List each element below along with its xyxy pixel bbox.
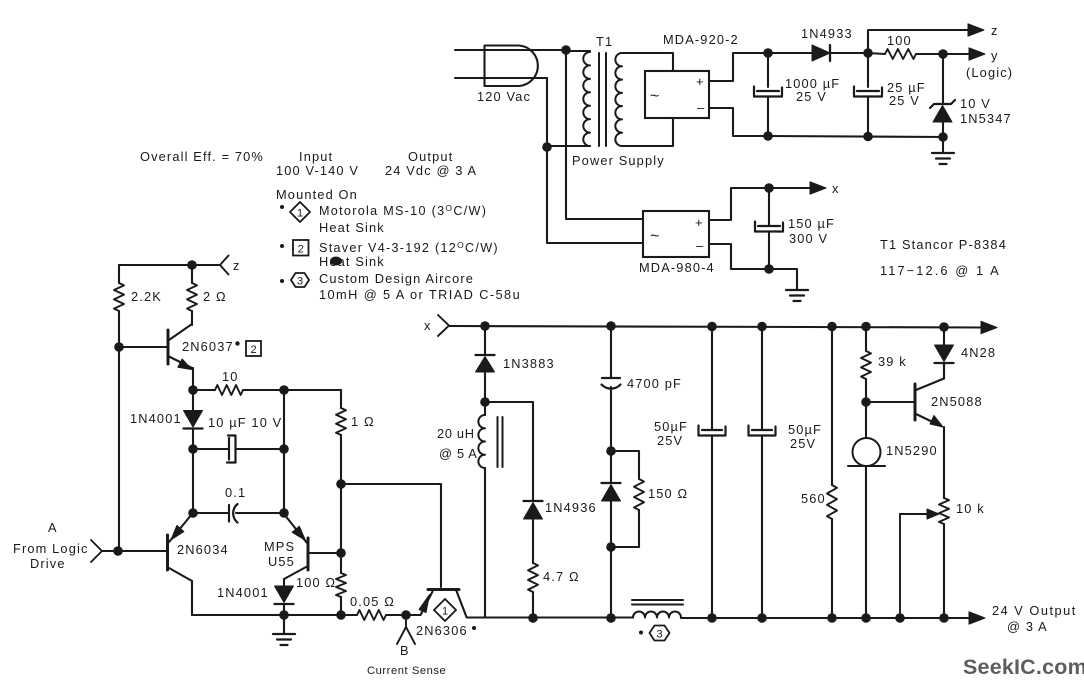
label @ 3 A (1007, 619, 1048, 634)
junction dot bottom rail 25uF (863, 132, 873, 142)
svg-text:2N6037: 2N6037 (182, 339, 234, 354)
terminal A chevron (91, 540, 102, 562)
wire diode to node y (830, 52, 868, 54)
svg-text:0.1: 0.1 (225, 485, 246, 500)
resistor 2.2K (114, 265, 124, 347)
svg-text:A: A (48, 520, 58, 535)
junction dot 100 ohm bottom (336, 610, 346, 620)
transformer T1 primary winding (583, 52, 590, 146)
wire z branch (868, 30, 968, 53)
svg-text:50µF: 50µF (788, 422, 822, 437)
svg-text:@ 5 A: @ 5 A (439, 446, 478, 461)
junction dot 1 ohm bottom (336, 479, 346, 489)
label Staver heat sink (319, 240, 499, 255)
label x top (832, 181, 840, 196)
label (Logic) (966, 65, 1013, 80)
svg-text:1N4001: 1N4001 (130, 411, 182, 426)
label @ 5 A (439, 446, 478, 461)
svg-text:MDA-980-4: MDA-980-4 (639, 260, 715, 275)
svg-text:120 Vac: 120 Vac (477, 89, 531, 104)
arrow terminal x (810, 182, 826, 194)
label 1 ohm (351, 414, 375, 429)
svg-text:+: + (696, 74, 704, 89)
wire 980 - output (709, 244, 769, 269)
svg-text:MDA-920-2: MDA-920-2 (663, 32, 739, 47)
wire secondary top to rectifier (622, 53, 673, 71)
label U55 (268, 554, 295, 569)
junction dot snubber bottom (606, 542, 616, 552)
junction dot node after 1N4933 (863, 48, 873, 58)
diamond marker 1 (290, 202, 310, 222)
wire bottom rail right part (681, 617, 969, 619)
svg-text:2 Ω: 2 Ω (203, 289, 227, 304)
label 4700 pF (627, 376, 682, 391)
svg-text:2N6306: 2N6306 (416, 623, 468, 638)
label 1N5290 (886, 443, 938, 458)
svg-text:–: – (696, 238, 704, 253)
junction dot node y (938, 49, 948, 59)
label 2.2K (131, 289, 162, 304)
label 560 (801, 491, 826, 506)
svg-text:2.2K: 2.2K (131, 289, 162, 304)
ground top section (932, 137, 954, 164)
svg-text:24 Vdc @ 3 A: 24 Vdc @ 3 A (385, 163, 477, 178)
label Custom Design Aircore (319, 271, 474, 286)
junction dot rail 560 (827, 322, 837, 332)
junction dot emitter node (188, 385, 198, 395)
diode D8 1N5290 current regulator (848, 402, 885, 618)
wire 2.2K down to A node (118, 347, 120, 551)
svg-text:2N6034: 2N6034 (177, 542, 229, 557)
label - in MDA-980-4 (696, 238, 704, 253)
svg-text:150 µF: 150 µF (788, 216, 835, 231)
label 2N6037 (182, 339, 240, 354)
diode D3 1N4001 upper (184, 390, 203, 449)
label 2N5088 (931, 394, 983, 409)
junction dot bottom rail zener (938, 132, 948, 142)
svg-text:Heat Sink: Heat Sink (319, 220, 385, 235)
svg-text:Custom Design Aircore: Custom Design Aircore (319, 271, 474, 286)
label 25 V c2 (889, 93, 920, 108)
wire x arrow (769, 187, 812, 189)
svg-text:4700 pF: 4700 pF (627, 376, 682, 391)
label 25V c8 (790, 436, 816, 451)
label 100 V-140 V (276, 163, 359, 178)
label MDA-920-2 (663, 32, 739, 47)
label 10uF 10 V (208, 415, 282, 430)
arrow terminal z (968, 24, 984, 36)
svg-text:25V: 25V (790, 436, 816, 451)
svg-text:y: y (991, 48, 999, 63)
svg-text:10mH @ 5 A or TRIAD C-58u: 10mH @ 5 A or TRIAD C-58u (319, 287, 521, 302)
wire A to base (102, 550, 167, 552)
wire top x rail (449, 326, 983, 328)
transistor Q4 2N6306 (406, 590, 467, 618)
resistor 10 ohm (193, 385, 341, 395)
svg-text:1N4933: 1N4933 (801, 26, 853, 41)
svg-text:Motorola MS-10 (3OC/W): Motorola MS-10 (3OC/W) (319, 203, 487, 218)
label 150 uF (788, 216, 835, 231)
capacitor C3 150uF 300V (755, 188, 783, 269)
wire snubber to rail (610, 547, 612, 618)
label Mounted On (276, 187, 358, 202)
transformer T1 secondary winding (615, 53, 622, 146)
wire bottom rail left part (467, 616, 633, 618)
label 1N4936 (545, 500, 597, 515)
junction dot primary bottom (542, 142, 552, 152)
arrow output (969, 612, 985, 624)
junction dot rail 4N28 (939, 322, 949, 332)
transistor Q1 2N6037 (168, 324, 193, 390)
svg-text:10 V: 10 V (960, 96, 991, 111)
label 10mH @ 5 A or TRIAD C-58u (319, 287, 521, 302)
resistor 1 ohm (336, 390, 346, 484)
diode D5 1N3883 (476, 326, 495, 402)
svg-text:SeekIC.com: SeekIC.com (963, 655, 1084, 679)
svg-text:3: 3 (656, 629, 662, 641)
hexagon marker 3 (291, 273, 309, 288)
junction dot c8 bottom (757, 613, 767, 623)
label 20 uH (437, 426, 475, 441)
label 1N4933 (801, 26, 853, 41)
junction dot rail 39k (861, 322, 871, 332)
svg-text:24 V Output: 24 V Output (992, 603, 1077, 618)
label 24 Vdc @ 3 A (385, 163, 477, 178)
resistor 100 ohm emitter (336, 553, 346, 615)
label 2N6306 (416, 623, 476, 638)
junction dot 4.7 bottom (528, 613, 538, 623)
svg-text:4.7 Ω: 4.7 Ω (543, 569, 580, 584)
junction dot rail c7 (707, 322, 717, 332)
square marker 2 (293, 240, 309, 256)
label z (991, 23, 999, 38)
svg-text:117−12.6 @ 1 A: 117−12.6 @ 1 A (880, 263, 1001, 278)
transistor Q5 2N5088 (915, 364, 944, 498)
wire y arrow (943, 53, 970, 55)
junction dot 150uF bottom (764, 264, 774, 274)
label Overall Eff. = 70% (140, 149, 264, 164)
svg-text:+: + (695, 215, 703, 230)
diode D1 1N4933 (812, 45, 830, 61)
resistor 4.7 ohm (528, 563, 538, 618)
svg-text:25 V: 25 V (889, 93, 920, 108)
label Power Supply (572, 153, 665, 168)
svg-text:Overall Eff. = 70%: Overall Eff. = 70% (140, 149, 264, 164)
svg-text:10 k: 10 k (956, 501, 985, 516)
label 1N3883 (503, 356, 555, 371)
label 2 ohm (203, 289, 227, 304)
label 4N28 (961, 345, 996, 360)
wire rectifier - output (709, 108, 768, 136)
junction dot 560 bottom (827, 613, 837, 623)
wire top rail + (768, 52, 812, 54)
junction dot 1N3883 bottom (480, 397, 490, 407)
inductor L2 output choke (633, 612, 681, 618)
wire mains to 980 bottom (547, 147, 643, 243)
capacitor C7 50uF (699, 326, 726, 618)
svg-text:x: x (424, 318, 432, 333)
label Current Sense (367, 665, 446, 677)
junction dot rail 4700pF (606, 321, 616, 331)
wire snubber top (611, 451, 639, 479)
transformer T1 core (599, 53, 606, 146)
label 117-12.6 @ 1 A (880, 263, 1001, 278)
label 25 uF (887, 80, 926, 95)
ground left section (273, 615, 295, 645)
svg-text:~: ~ (650, 88, 659, 105)
label 0.05 ohm (350, 594, 395, 609)
wire z left rail (119, 264, 220, 266)
AC plug 120 Vac (455, 46, 566, 87)
junction dot base MPSU55 (336, 548, 346, 558)
label MDA-980-4 (639, 260, 715, 275)
junction dot 0.1 right (279, 508, 289, 518)
label From Logic (13, 541, 89, 556)
svg-text:10 µF 10 V: 10 µF 10 V (208, 415, 282, 430)
terminal B chevron (397, 615, 415, 644)
label Heat Sink 1 (319, 220, 385, 235)
junction dot ground node (279, 610, 289, 620)
svg-text:1N4001: 1N4001 (217, 585, 269, 600)
wire mid left vertical (192, 449, 194, 513)
svg-text:1N3883: 1N3883 (503, 356, 555, 371)
label T1 (596, 34, 613, 49)
bullet 3 (280, 279, 284, 283)
svg-text:2N5088: 2N5088 (931, 394, 983, 409)
svg-text:100 Ω: 100 Ω (296, 575, 336, 590)
diode D9 4N28 (935, 327, 954, 379)
ink blob on Heat Sink (330, 257, 342, 266)
svg-text:3: 3 (297, 276, 303, 288)
junction dot 10uF left (188, 444, 198, 454)
svg-text:T1 Stancor P-8384: T1 Stancor P-8384 (880, 237, 1007, 252)
wire to 1N4936 (485, 402, 533, 501)
bullet 1 (280, 205, 284, 209)
label 24 V Output (992, 603, 1077, 618)
junction dot A node (113, 546, 123, 556)
junction dot snubber top (606, 446, 616, 456)
wire primary bottom (547, 145, 590, 147)
wire rectifier + output (709, 53, 768, 81)
wire base MPSU55 (308, 552, 341, 554)
square marker 2 at Q1 (246, 341, 261, 356)
svg-text:1: 1 (297, 208, 303, 220)
svg-text:0.05 Ω: 0.05 Ω (350, 594, 395, 609)
diode D4 1N4001 lower (275, 586, 294, 615)
label 1000 uF (785, 76, 840, 91)
wire to ground 980 (769, 269, 797, 289)
wire top bottom rail (768, 136, 943, 137)
potentiometer 10k (939, 498, 949, 618)
label y (991, 48, 999, 63)
label 100 ohm (296, 575, 336, 590)
label A (48, 520, 58, 535)
label Output (408, 149, 453, 164)
junction dot 39k bottom (861, 397, 871, 407)
zener D2 1N5347 (930, 54, 955, 138)
capacitor C1 1000uF 25V (754, 53, 782, 136)
label ~ in MDA-920-2 (650, 88, 659, 105)
svg-text:20 uH: 20 uH (437, 426, 475, 441)
arrow terminal y (969, 48, 985, 60)
junction dot 10 ohm right (279, 385, 289, 395)
svg-text:Current Sense: Current Sense (367, 665, 446, 677)
junction dot wiper bottom (895, 613, 905, 623)
hexagon marker 3 at choke (650, 626, 670, 641)
junction dot rail c8 (757, 322, 767, 332)
svg-text:100: 100 (887, 33, 912, 48)
wire base 2N6037 (119, 346, 168, 348)
inductor L1 20uH (478, 402, 485, 617)
junction dot 10k bottom (939, 613, 949, 623)
label 150 ohm (648, 486, 688, 501)
svg-text:T1: T1 (596, 34, 613, 49)
svg-text:Input: Input (299, 149, 333, 164)
svg-text:39 k: 39 k (878, 354, 907, 369)
svg-text:B: B (400, 643, 410, 658)
svg-text:25 V: 25 V (796, 89, 827, 104)
svg-text:1 Ω: 1 Ω (351, 414, 375, 429)
arrow top x rail (981, 321, 997, 333)
terminal z left (192, 256, 229, 275)
transistor Q2 2N6034 (168, 514, 193, 615)
junction dot rail 1N3883 (480, 321, 490, 331)
label 10 k (956, 501, 985, 516)
svg-text:Power Supply: Power Supply (572, 153, 665, 168)
svg-text:1N5290: 1N5290 (886, 443, 938, 458)
transistor Q3 MPS U55 (284, 514, 308, 586)
svg-text:1N4936: 1N4936 (545, 500, 597, 515)
label 300 V (789, 231, 828, 246)
label Motorola MS-10 heat sink (319, 203, 487, 218)
svg-text:MPS: MPS (264, 539, 295, 554)
junction dot x node (764, 183, 774, 193)
svg-text:2: 2 (298, 244, 304, 256)
label + in MDA-920-2 (696, 74, 704, 89)
junction dot 10uF right (279, 444, 289, 454)
wire plug bottom down (546, 78, 548, 147)
wire base 2N5088 (866, 401, 915, 403)
svg-text:@ 3 A: @ 3 A (1007, 619, 1048, 634)
label 25V c7 (657, 433, 683, 448)
junction dot z left (187, 260, 197, 270)
label 4.7 ohm (543, 569, 580, 584)
label z left (233, 258, 241, 273)
svg-text:(Logic): (Logic) (966, 65, 1013, 80)
bridge rectifier U1 MDA-920-2 box (645, 71, 709, 118)
svg-text:U55: U55 (268, 554, 295, 569)
svg-text:Output: Output (408, 149, 453, 164)
resistor 100 ohm (868, 49, 943, 59)
svg-text:300 V: 300 V (789, 231, 828, 246)
wire plug to primary top (566, 50, 590, 52)
label ~ in MDA-980-4 (650, 228, 659, 245)
label 10 (222, 369, 239, 384)
svg-text:10: 10 (222, 369, 239, 384)
svg-text:1N5347: 1N5347 (960, 111, 1012, 126)
label + in MDA-980-4 (695, 215, 703, 230)
svg-text:Heat Sink: Heat Sink (319, 254, 385, 269)
wire 980 + output (709, 188, 769, 220)
svg-text:z: z (991, 23, 999, 38)
svg-text:~: ~ (650, 228, 659, 245)
junction dot 1000uF top (763, 48, 773, 58)
label 39 k (878, 354, 907, 369)
junction dot current sense (401, 610, 411, 620)
bullet 2 (280, 244, 284, 248)
label Drive (30, 556, 66, 571)
label - in MDA-920-2 (697, 100, 705, 115)
svg-text:1: 1 (442, 606, 448, 618)
label 10 V (960, 96, 991, 111)
label Input (299, 149, 333, 164)
capacitor C4 10uF horizontal (193, 436, 284, 463)
label 1N4001 lower (217, 585, 269, 600)
svg-text:2: 2 (250, 344, 256, 356)
label 120 Vac (477, 89, 531, 104)
svg-text:50µF: 50µF (654, 419, 688, 434)
junction dot c7 bottom (707, 613, 717, 623)
svg-text:Staver V4-3-192 (12OC/W): Staver V4-3-192 (12OC/W) (319, 240, 499, 255)
label 100 (887, 33, 912, 48)
junction dot plug top (561, 45, 571, 55)
wire mains to 980 top (566, 50, 643, 219)
svg-text:150 Ω: 150 Ω (648, 486, 688, 501)
label MPS (264, 539, 295, 554)
svg-text:4N28: 4N28 (961, 345, 996, 360)
junction dot rail snubber (606, 613, 616, 623)
capacitor C8 50uF (749, 326, 776, 618)
resistor 2 ohm (187, 265, 197, 325)
label 1N4001 upper (130, 411, 182, 426)
label 2N6034 (177, 542, 229, 557)
diamond marker 1 at Q4 (434, 599, 456, 621)
resistor 39k (861, 326, 871, 402)
svg-text:x: x (832, 181, 840, 196)
label 50uF c8 (788, 422, 822, 437)
svg-text:From Logic: From Logic (13, 541, 89, 556)
capacitor C6 4700pF (602, 326, 621, 451)
label T1 Stancor P-8384 (880, 237, 1007, 252)
resistor 560 (827, 326, 837, 618)
wire secondary bottom to rectifier (622, 118, 673, 146)
terminal x chevron (438, 315, 449, 336)
wire mid right vertical (283, 390, 285, 513)
label x rail (424, 318, 432, 333)
svg-text:z: z (233, 258, 241, 273)
diode D7 snubber (602, 451, 621, 547)
bullet at choke (639, 631, 643, 635)
svg-text:Drive: Drive (30, 556, 66, 571)
wire snubber bottom (611, 546, 639, 548)
svg-text:100 V-140 V: 100 V-140 V (276, 163, 359, 178)
junction dot 1N5290 bottom (861, 613, 871, 623)
wire bottom left rail (192, 614, 357, 616)
wire 1 ohm node down (340, 484, 342, 553)
resistor 0.05 ohm (357, 610, 410, 620)
junction dot bottom rail 1000uF (763, 131, 773, 141)
junction dot base 2N6037 (114, 342, 124, 352)
pot wiper arrow (900, 509, 939, 618)
inductor L2 core lines (632, 600, 683, 605)
bridge rectifier U2 MDA-980-4 box (643, 211, 709, 257)
resistor 150 ohm (634, 479, 644, 547)
svg-text:Mounted On: Mounted On (276, 187, 358, 202)
label 50uF c7 (654, 419, 688, 434)
diode D6 1N4936 (524, 501, 543, 563)
label 0.1 (225, 485, 246, 500)
inductor L1 core lines (498, 417, 503, 467)
